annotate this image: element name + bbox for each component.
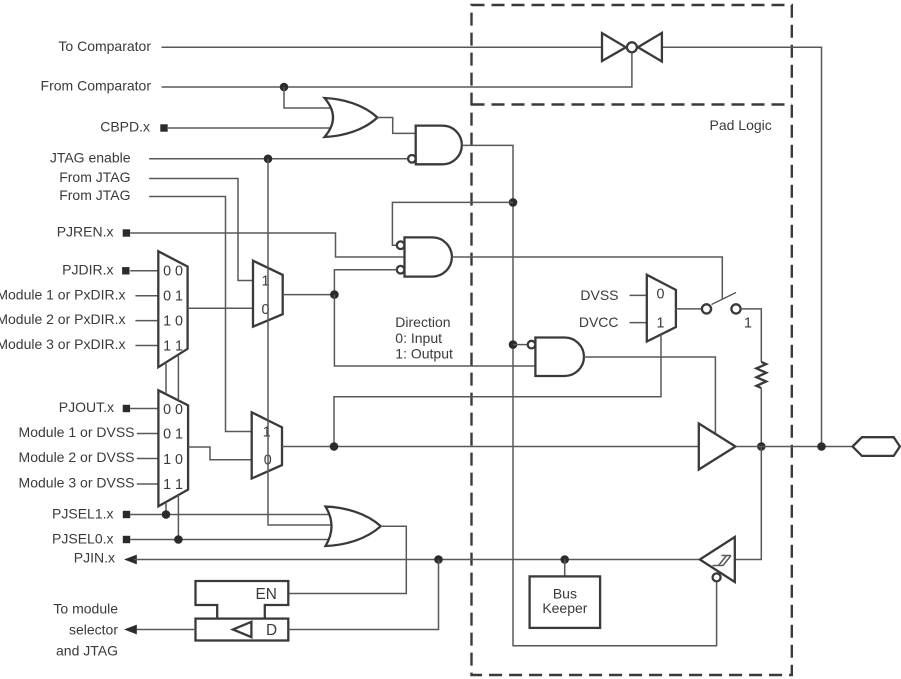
- svg-text:JTAG enable: JTAG enable: [50, 149, 131, 165]
- and-gate U2: [416, 126, 462, 165]
- svg-text:From Comparator: From Comparator: [41, 78, 152, 94]
- svg-text:Pad Logic: Pad Logic: [710, 117, 772, 133]
- svg-text:Module 1 or DVSS: Module 1 or DVSS: [19, 424, 135, 440]
- junction PJIN at D latch: [434, 555, 443, 564]
- svg-text:1 0: 1 0: [163, 452, 183, 468]
- wire JTAG enable: [149, 158, 408, 160]
- svg-text:CBPD.x: CBPD.x: [100, 119, 150, 135]
- mux M1 (PJDIR 4:1): [158, 251, 187, 367]
- wire U3 bottom input from mux2 output: [334, 270, 396, 295]
- wire switch to resistor: [741, 309, 762, 362]
- wire M3 output to M4 input 0: [188, 447, 252, 460]
- svg-text:Module 3 or PxDIR.x: Module 3 or PxDIR.x: [0, 336, 126, 352]
- svg-text:PJOUT.x: PJOUT.x: [59, 399, 114, 415]
- wire buffer output to pad: [736, 446, 853, 448]
- svg-text:selector: selector: [69, 621, 118, 637]
- svg-text:Direction: Direction: [395, 314, 450, 330]
- svg-text:1: 1: [744, 315, 752, 331]
- svg-text:Keeper: Keeper: [542, 600, 587, 616]
- junction M4 output: [330, 442, 339, 451]
- svg-text:0 0: 0 0: [163, 264, 183, 280]
- svg-text:EN: EN: [256, 586, 277, 603]
- svg-text:DVCC: DVCC: [579, 314, 619, 330]
- svg-text:0: 0: [657, 287, 665, 303]
- svg-text:PJSEL1.x: PJSEL1.x: [52, 505, 113, 521]
- wire To Comparator to transmission gate: [162, 46, 603, 48]
- svg-text:PJSEL0.x: PJSEL0.x: [52, 530, 113, 546]
- nand U3 (3-input with 2 bubbles): [405, 237, 452, 276]
- wire M4 output rail to output buffer: [282, 446, 699, 448]
- wire M2 output: [283, 294, 335, 296]
- wire From Comparator branch to OR gate: [284, 87, 332, 108]
- wire JTAG enable vertical to OR2: [268, 159, 333, 525]
- arrow PJIN.x: [124, 555, 137, 565]
- select line verticals PJSEL0: [177, 355, 179, 401]
- junction PJSEL1: [162, 510, 171, 519]
- bubble U3 bottom input: [397, 266, 405, 274]
- wire M2 output to direction NAND lower input: [334, 295, 535, 366]
- wire D output to module selector: [134, 629, 196, 631]
- svg-text:1: 1: [657, 315, 665, 331]
- mux M3 (PJOUT 4:1): [158, 390, 188, 506]
- svg-text:D: D: [266, 622, 277, 639]
- wire U2 output enable net: [462, 145, 717, 645]
- wire U4 output to buffer enable: [584, 357, 715, 433]
- svg-text:0 1: 0 1: [163, 427, 183, 443]
- mux M2 (2:1 JTAG override): [253, 261, 283, 327]
- svg-text:PJIN.x: PJIN.x: [74, 550, 115, 566]
- arrow to module selector: [124, 625, 137, 635]
- wire From JTAG 1 to mux2: [149, 179, 253, 281]
- wire PJIN rail: [134, 559, 700, 561]
- junction resistor/pad: [757, 442, 766, 451]
- wire M5 output to switch: [676, 308, 702, 310]
- bus keeper B1: [530, 576, 601, 628]
- svg-text:To module: To module: [53, 600, 118, 616]
- Pad Logic dashed divider: [472, 103, 792, 105]
- wire CBPD.x to OR gate: [168, 127, 332, 129]
- wire U3 output to switch: [452, 257, 722, 299]
- svg-text:Module 2 or PxDIR.x: Module 2 or PxDIR.x: [0, 311, 126, 327]
- nand U4 (direction NAND): [535, 338, 584, 377]
- svg-text:To Comparator: To Comparator: [58, 38, 151, 54]
- svg-text:Module 2 or DVSS: Module 2 or DVSS: [19, 449, 135, 465]
- svg-text:1 0: 1 0: [163, 313, 183, 329]
- wire M5 select from output rail: [334, 334, 661, 446]
- svg-text:PJDIR.x: PJDIR.x: [62, 261, 113, 277]
- wire From Comparator: [162, 52, 632, 87]
- wire branch to direction NAND bubble: [513, 344, 528, 346]
- svg-text:From JTAG: From JTAG: [59, 169, 130, 185]
- mux M5 (DVSS/DVCC pull resistor select): [647, 275, 676, 342]
- svg-text:PJREN.x: PJREN.x: [57, 224, 114, 240]
- bubble U3 top input: [397, 241, 405, 249]
- wire D input from PJIN: [288, 560, 438, 630]
- or-gate U1: [325, 98, 378, 137]
- wire U5 output to EN latch: [288, 526, 406, 593]
- svg-text:Module 3 or DVSS: Module 3 or DVSS: [19, 475, 135, 491]
- wire From JTAG 2 to mux4: [149, 197, 252, 432]
- or-gate U5 (latch enable): [326, 507, 381, 547]
- select line verticals PJSEL1: [165, 363, 167, 394]
- junction pad branch: [817, 442, 826, 451]
- wire branch to NAND3 top input: [392, 202, 513, 245]
- switch S1: [702, 293, 741, 314]
- junction PJSEL0: [174, 535, 183, 544]
- junction PJIN at bus keeper: [560, 555, 569, 564]
- wire OR1 output to AND1: [377, 118, 415, 134]
- svg-text:0 0: 0 0: [163, 402, 183, 418]
- wire transmission gate to pad vertical: [662, 47, 822, 446]
- latch D section: [196, 619, 289, 641]
- svg-text:From JTAG: From JTAG: [59, 187, 130, 203]
- svg-text:0: Input: 0: Input: [395, 330, 442, 346]
- bubble U8 enable: [713, 573, 721, 581]
- transmission gate U7: [602, 33, 662, 62]
- svg-text:1: Output: 1: Output: [395, 346, 453, 362]
- junction enable net lower: [509, 340, 518, 349]
- wire pad node down to schmitt input: [735, 447, 762, 560]
- schmitt trigger input buffer U8: [700, 537, 735, 582]
- bubble U4 upper input: [528, 341, 536, 349]
- junction enable net upper: [509, 198, 518, 207]
- wire M1 output to M2 input 0: [188, 307, 253, 309]
- svg-text:1: 1: [263, 424, 271, 440]
- latch EN section: [196, 581, 289, 619]
- schmitt hysteresis symbol: [713, 556, 732, 566]
- wire resistor to output rail: [760, 388, 762, 447]
- wire PJREN.x to NAND3 middle input: [130, 233, 404, 257]
- pad hexagon P1: [853, 437, 900, 456]
- junction From Comparator: [280, 83, 289, 92]
- svg-text:0 1: 0 1: [163, 289, 183, 305]
- wire bus keeper connection: [564, 560, 566, 577]
- resistor R1: [756, 362, 766, 388]
- svg-text:DVSS: DVSS: [580, 287, 618, 303]
- inverter bubble on U2 input: [408, 155, 416, 163]
- output buffer U6: [699, 424, 736, 470]
- svg-text:Module 1 or PxDIR.x: Module 1 or PxDIR.x: [0, 286, 126, 302]
- junction JTAG enable: [264, 155, 273, 164]
- mux M4 (2:1 JTAG override): [252, 412, 282, 478]
- svg-text:and JTAG: and JTAG: [56, 643, 118, 659]
- svg-text:1 1: 1 1: [163, 477, 183, 493]
- junction M2 output: [330, 290, 339, 299]
- Pad Logic dashed boundary box: [472, 5, 792, 675]
- wire PJDIR.x: [130, 270, 158, 272]
- svg-text:1 1: 1 1: [163, 338, 183, 354]
